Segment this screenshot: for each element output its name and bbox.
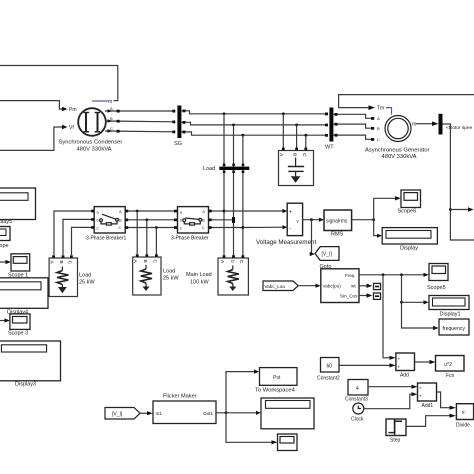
wire breaker1 C to breaker2 c: [125, 227, 177, 229]
ground arrow Load1: [58, 287, 67, 293]
component Voltage Measurement: [287, 203, 302, 235]
wire Vf input from left edge: [0, 127, 62, 150]
svg-text:100 kW: 100 kW: [190, 280, 209, 286]
op synchronous condenser machine SC: [78, 108, 106, 136]
svg-text:b: b: [229, 260, 235, 263]
component Load1 25kW: [49, 258, 77, 297]
wire cap tap A: [282, 114, 284, 151]
svg-text:C: C: [238, 260, 244, 264]
wire freq to Add input1: [383, 275, 390, 358]
svg-text:A: A: [377, 116, 380, 121]
wire into Scope3: [0, 320, 5, 322]
wire Tm feed from right edge: [339, 95, 474, 108]
component terminator wt: [374, 283, 381, 289]
svg-text:+: +: [289, 210, 292, 216]
svg-text:Step: Step: [390, 438, 401, 444]
wire vertical tap A to loads: [223, 114, 225, 258]
svg-text:Sin_Cos: Sin_Cos: [340, 293, 358, 298]
svg-text:B: B: [377, 126, 380, 131]
component Display5: [0, 188, 36, 220]
svg-text:25 kW: 25 kW: [79, 280, 95, 286]
svg-text:Synchronous Condenser: Synchronous Condenser: [59, 140, 123, 146]
component Display (RMS): [382, 228, 437, 244]
component Display2 large: [261, 398, 314, 429]
ground arrow in capacitor bank: [291, 176, 301, 183]
svg-text:Vabc(pu): Vabc(pu): [323, 284, 342, 289]
component From tag Vabc_Load: [263, 281, 298, 291]
wire branch up to Pst: [226, 372, 254, 413]
wire bus phase A (SG to WT): [181, 111, 326, 114]
svg-text:m: m: [412, 122, 416, 128]
svg-text:C: C: [377, 137, 380, 142]
wire From tag to PLL: [298, 285, 315, 287]
svg-text:Add: Add: [400, 373, 409, 379]
svg-text:[V_I]: [V_I]: [112, 412, 123, 418]
svg-text:Load: Load: [163, 269, 175, 275]
component Scope6: [401, 190, 421, 208]
svg-text:Constant2: Constant2: [317, 376, 340, 382]
wire Flicker Maker output: [216, 412, 256, 414]
component PLL block: [321, 269, 359, 303]
wire branch down to scope: [226, 413, 272, 443]
svg-text:4: 4: [356, 386, 359, 392]
component Constant2: [321, 358, 340, 373]
component bus selector bar: [439, 114, 443, 135]
svg-text:Pm: Pm: [69, 107, 77, 113]
component Pst To Workspace4: [260, 368, 298, 386]
wire Tm elbow into machine: [386, 108, 392, 115]
wire to voltage measurement plus: [224, 210, 283, 212]
wire branch up to Scope6: [374, 198, 395, 219]
svg-text:Scope5: Scope5: [427, 285, 446, 291]
svg-text:+: +: [419, 386, 422, 391]
resistor symbol Load1: [61, 267, 63, 271]
svg-text:Add1: Add1: [422, 403, 434, 409]
svg-text:Scope6: Scope6: [398, 209, 417, 215]
resistor symbol Load2: [145, 265, 147, 269]
wire bus phase C (SG to WT): [181, 132, 326, 135]
svg-text:Display3: Display3: [15, 382, 36, 388]
svg-text:60: 60: [327, 364, 333, 370]
wire Constant2 to Add: [339, 364, 390, 366]
svg-text:+: +: [419, 394, 422, 399]
component Add1: [418, 383, 437, 401]
component Scope1: [11, 254, 30, 271]
wire tap to Load2 C: [155, 228, 157, 255]
component Main Load 100 kW: [218, 258, 248, 295]
wire Add to Fcn: [415, 361, 430, 363]
node junction display1: [400, 301, 403, 304]
wire branch down to Display: [374, 220, 377, 236]
component Fcn u^2: [436, 356, 465, 372]
wire Sin_Cos output to terminator: [359, 295, 367, 297]
component Step: [386, 419, 406, 436]
wire freq to Display1 and frequency: [402, 275, 434, 328]
node junction B blob: [232, 217, 235, 223]
wire cap tap C: [305, 135, 307, 150]
wire WT to generator phase C: [333, 135, 371, 139]
svg-text:c: c: [180, 225, 182, 230]
component 3-Phase Breaker1: [94, 207, 125, 233]
svg-text:B: B: [292, 153, 298, 156]
svg-text:Flicker Maker: Flicker Maker: [163, 394, 197, 400]
wire RMS output: [352, 219, 374, 221]
component Display1: [429, 296, 469, 310]
component Clock: [353, 403, 364, 414]
svg-text:B: B: [110, 116, 113, 121]
generator asynchronous machine: [385, 116, 411, 142]
svg-text:C: C: [119, 225, 122, 230]
component Scope5: [429, 264, 448, 281]
svg-text:×: ×: [462, 411, 466, 417]
node junction flicker out: [225, 411, 228, 414]
svg-text:C: C: [202, 225, 205, 230]
svg-text:wt: wt: [351, 284, 356, 289]
svg-text:A: A: [119, 209, 122, 214]
node junction load2 C: [155, 226, 158, 229]
svg-text:C: C: [301, 153, 307, 157]
svg-text:A: A: [202, 209, 205, 214]
wire branch down to Goto V_I: [310, 220, 312, 254]
wire breaker2 B to bus tap: [209, 219, 234, 221]
resistor symbol Main Load: [232, 266, 234, 270]
svg-text:[V_I]: [V_I]: [322, 252, 333, 258]
svg-text:B: B: [119, 217, 122, 222]
svg-text:C: C: [67, 261, 73, 265]
node junction freq display1: [400, 273, 403, 276]
node junction load2 A: [136, 210, 139, 213]
svg-text:WT: WT: [325, 145, 334, 151]
component Scope3: [10, 314, 30, 330]
node junction A-tap capbank: [282, 112, 285, 115]
svg-text:Load: Load: [203, 166, 215, 172]
svg-text:Pst: Pst: [273, 375, 281, 381]
component From tag V_I: [105, 408, 140, 420]
wire SC phase C to SG: [105, 130, 174, 133]
node junction A-tap main: [223, 112, 226, 115]
svg-text:25 kW: 25 kW: [163, 276, 179, 282]
svg-text:In1: In1: [156, 411, 163, 416]
wire breaker2 A to bus tap: [209, 210, 224, 212]
node junction B-tap capbank: [295, 124, 298, 127]
capacitor symbol inside bank: [295, 158, 297, 167]
wire Add1 to Divide: [437, 392, 450, 408]
wire breaker1 B to breaker2 b: [125, 219, 177, 221]
wire rotor speed down right edge: [443, 124, 474, 240]
svg-text:Vf: Vf: [69, 125, 74, 131]
node junction VM A: [223, 210, 226, 213]
wire SC phase B to SG: [105, 120, 174, 123]
bus bar WT: [329, 108, 333, 142]
breaker2 switch icon: [183, 219, 186, 222]
svg-text:Divide: Divide: [456, 423, 470, 429]
node m label (sync): [92, 100, 108, 102]
wire to voltage measurement minus: [243, 226, 283, 228]
svg-text:Asynchronous Generator: Asynchronous Generator: [365, 148, 430, 154]
ground stub Main Load: [229, 287, 236, 292]
wire rotor speed branch to right edge: [450, 209, 469, 211]
svg-text:C: C: [110, 126, 113, 131]
svg-text:SG: SG: [174, 141, 182, 147]
svg-text:B: B: [202, 217, 205, 222]
svg-text:Display5: Display5: [0, 219, 12, 225]
wire into Scope1: [0, 261, 6, 263]
component Divide: [456, 404, 473, 420]
wire tap to Load2 B: [146, 220, 148, 255]
wire WT to generator phase A: [333, 114, 371, 118]
svg-text:Clock: Clock: [351, 417, 364, 423]
svg-text:m: m: [108, 99, 112, 105]
svg-text:Main Load: Main Load: [186, 272, 212, 278]
svg-text:C: C: [152, 260, 158, 264]
wire Constant3 to Add1: [368, 386, 412, 388]
wire cap tap B: [296, 125, 298, 151]
svg-text:Scope 3: Scope 3: [8, 331, 28, 337]
svg-text:signalrms: signalrms: [326, 219, 348, 225]
wire From V_I to Flicker Maker: [140, 412, 147, 414]
wire Freq output to Scope5: [359, 274, 424, 276]
wire m-output of synchronous condenser to left edge: [0, 66, 118, 101]
component Display4: [0, 278, 48, 309]
node junction C-tap capbank: [304, 134, 307, 137]
wire breaker1 a to Load1 A: [54, 211, 94, 255]
svg-text:+: +: [398, 365, 401, 370]
wire tap to Load2 A: [136, 211, 138, 254]
wire to Display1: [402, 301, 424, 303]
svg-text:u^2: u^2: [444, 362, 452, 368]
svg-text:3-Phase Breaker1: 3-Phase Breaker1: [86, 236, 127, 242]
svg-text:B: B: [58, 261, 64, 264]
wire breaker1 c to Load1 C: [72, 227, 95, 255]
svg-text:+: +: [398, 357, 401, 362]
svg-text:Vabc_Loa: Vabc_Loa: [265, 284, 286, 289]
ground stub Load2: [143, 287, 150, 292]
wire wt output to terminator: [359, 285, 367, 287]
svg-text:3-Phase Breaker: 3-Phase Breaker: [171, 236, 209, 242]
svg-text:Tm: Tm: [377, 106, 384, 112]
svg-text:Display: Display: [400, 246, 418, 252]
svg-text:Scope: Scope: [0, 243, 9, 249]
svg-text:RMS: RMS: [331, 232, 344, 238]
wire Step to Divide: [406, 416, 450, 427]
component Display3: [0, 341, 61, 381]
component 3-Phase Breaker: [178, 207, 209, 233]
component frequency block: [439, 319, 469, 335]
svg-text:Load: Load: [79, 273, 91, 279]
component Scope4 small: [278, 434, 298, 451]
node junction B-tap main: [232, 124, 235, 127]
component Scope0 left edge: [0, 227, 10, 241]
svg-text:Constant3: Constant3: [345, 397, 368, 403]
svg-text:Out1: Out1: [203, 411, 213, 416]
wire breaker1 b to Load1 B: [63, 219, 94, 255]
svg-text:c: c: [97, 225, 99, 230]
wire vertical tap B to loads: [233, 125, 235, 258]
component capacitor bank: [279, 151, 314, 186]
svg-text:To Workspace4: To Workspace4: [255, 388, 296, 394]
svg-text:480V 330kVA: 480V 330kVA: [382, 154, 417, 160]
node junction load2 B: [145, 218, 148, 221]
component terminator Sin_Cos: [374, 293, 381, 299]
node junction VM out: [310, 218, 313, 221]
svg-text:Display1: Display1: [440, 312, 461, 318]
wire SC phase A to SG: [105, 110, 174, 112]
wire Clock to Add1: [364, 394, 412, 409]
component Load2 25kW: [133, 257, 161, 295]
svg-text:480V 330kVA: 480V 330kVA: [77, 147, 112, 153]
svg-text:-: -: [290, 226, 292, 232]
svg-text:Voltage Measurement: Voltage Measurement: [256, 239, 316, 246]
svg-text:B: B: [142, 260, 148, 263]
breaker1 switch icon: [100, 219, 103, 222]
wire WT to generator phase B: [333, 124, 371, 128]
node junction C-tap main: [242, 134, 245, 137]
node junction RMS out: [372, 218, 375, 221]
component Add: [396, 353, 415, 371]
svg-text:Freq: Freq: [345, 273, 355, 278]
svg-text:Fcn: Fcn: [446, 373, 455, 379]
wire breaker2 C to bus tap: [209, 227, 243, 229]
bus bar SG: [177, 106, 181, 139]
node junction freq add: [382, 273, 385, 276]
node junction VM C: [241, 226, 244, 229]
wire vertical tap C to loads: [242, 135, 244, 258]
svg-text:frequency: frequency: [443, 326, 466, 332]
wire Pm input from left edge: [0, 101, 62, 109]
wire breaker1 A to breaker2 a: [125, 210, 177, 212]
wire VM output to RMS: [303, 219, 319, 221]
wire bus phase B (SG to WT): [181, 122, 326, 125]
node junction rotor speed: [449, 208, 452, 211]
component Goto V_I tag: [315, 247, 339, 261]
component Constant3: [348, 380, 368, 396]
svg-text:A: A: [110, 106, 113, 111]
component RMS block: [324, 210, 352, 231]
